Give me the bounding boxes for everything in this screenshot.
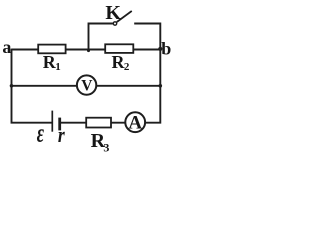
switch K blade	[117, 11, 131, 21]
svg-text:b: b	[161, 38, 171, 58]
node b dot	[158, 47, 162, 51]
junction dot right voltmeter row	[159, 84, 163, 88]
svg-text:ε: ε	[37, 118, 44, 147]
wire: switch branch vertical and top-left segment	[89, 24, 114, 51]
svg-text:2: 2	[124, 61, 130, 73]
svg-text:1: 1	[55, 61, 61, 73]
ammeter A	[125, 112, 145, 132]
switch K pivot	[113, 22, 116, 25]
svg-text:r: r	[58, 123, 65, 147]
voltmeter V	[77, 75, 96, 94]
resistor R1	[38, 45, 65, 54]
wire: node a to node b (row through R1 and R2)	[12, 49, 161, 51]
resistor R2	[105, 44, 133, 53]
svg-text:K: K	[105, 2, 121, 24]
svg-text:V: V	[81, 77, 93, 94]
battery cell short plate (-)	[58, 118, 61, 131]
wire: battery -> bottom wire -> right vertical -> top-right wire to switch contact	[60, 24, 160, 123]
battery cell long plate (+)	[51, 111, 53, 132]
svg-text:3: 3	[103, 140, 109, 152]
wire: voltmeter row	[12, 85, 161, 87]
svg-text:a: a	[2, 37, 11, 57]
resistor R3	[86, 118, 111, 128]
wire: left branch a -> left vertical -> bottom wire to battery	[12, 49, 52, 123]
svg-text:A: A	[128, 112, 142, 133]
label internal resistance r	[58, 123, 65, 147]
label emf epsilon	[37, 118, 44, 147]
junction dot left voltmeter row	[10, 84, 14, 88]
junction drip at switch branch and R1-R2 row	[87, 49, 90, 52]
